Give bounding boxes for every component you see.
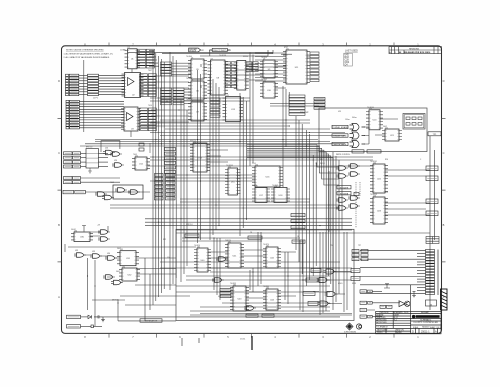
U3 buffer triangle bbox=[127, 113, 134, 121]
U2 output labels bbox=[140, 74, 157, 97]
right rail wire A bbox=[429, 136, 431, 310]
label RDDATA bbox=[337, 192, 351, 196]
gate G11 bbox=[98, 237, 110, 242]
right rail wire B bbox=[434, 150, 436, 240]
IC U13 bbox=[223, 95, 244, 122]
svg-text:ERASE GATE: ERASE GATE bbox=[333, 135, 347, 138]
IC U15 bbox=[225, 166, 241, 195]
elbow fan bus bbox=[247, 145, 339, 293]
U1 label stubs bbox=[149, 51, 159, 66]
bus label L3 bbox=[155, 185, 164, 188]
svg-text:74S124: 74S124 bbox=[225, 240, 231, 242]
gate G6a bbox=[115, 188, 127, 193]
output row 289.8b bbox=[368, 290, 373, 293]
label box mid0 bbox=[64, 177, 73, 180]
bus label L1 bbox=[155, 177, 164, 180]
bus label 4 bbox=[165, 166, 176, 169]
wire drop bbox=[117, 300, 119, 321]
capacitor C26 + ground bbox=[94, 315, 105, 321]
svg-text:9602: 9602 bbox=[117, 248, 121, 250]
filter block inner bbox=[404, 115, 424, 128]
gate G14 bbox=[105, 256, 117, 261]
scattered reference labels bbox=[71, 47, 422, 298]
bus label R2 bbox=[166, 181, 176, 184]
svg-text:2. ALL CAPACITOR VALUES ARE IN: 2. ALL CAPACITOR VALUES ARE IN MICROFARA… bbox=[64, 56, 111, 59]
svg-text:9-1: 9-1 bbox=[394, 319, 397, 321]
border frame bbox=[62, 46, 442, 334]
svg-text:1. ALL RESISTOR VALUES ARE IN: 1. ALL RESISTOR VALUES ARE IN OHMS, 1/4 … bbox=[64, 53, 114, 56]
wbox label 1 bbox=[314, 101, 325, 103]
wire bbox=[210, 50, 231, 56]
UL diamond symbol bbox=[346, 323, 353, 330]
svg-text:B: B bbox=[443, 223, 445, 227]
svg-text:RELEASED PER ECN 25816: RELEASED PER ECN 25816 bbox=[404, 51, 431, 54]
svg-text:SA4400: SA4400 bbox=[395, 331, 402, 334]
svg-text:RDGATE: RDGATE bbox=[340, 186, 349, 189]
bus label R0 bbox=[166, 174, 176, 177]
jumper box r0a bbox=[352, 250, 359, 253]
svg-text:7407: 7407 bbox=[148, 70, 152, 72]
svg-text:74LS393: 74LS393 bbox=[226, 165, 233, 167]
bus label R4 bbox=[166, 189, 176, 192]
svg-text:D: D bbox=[58, 79, 60, 83]
label SEPARATOR bbox=[140, 319, 162, 323]
label box bus 213.5 bbox=[291, 214, 305, 217]
svg-text:WCLK: WCLK bbox=[320, 163, 326, 165]
svg-text:9602: 9602 bbox=[110, 182, 114, 184]
OR gate G3 bbox=[350, 141, 366, 148]
label flag SHUGART MODULE bbox=[189, 48, 201, 52]
IC U6 bbox=[188, 79, 207, 100]
connector J4 box bbox=[426, 300, 437, 306]
gate at 218,280 bbox=[212, 278, 224, 283]
IC U32 one-shot bbox=[119, 266, 140, 281]
label box wc2 bbox=[367, 150, 381, 153]
svg-text:300ns: 300ns bbox=[352, 117, 357, 119]
gate G13 bbox=[90, 254, 102, 259]
gate at 250,308 bbox=[244, 306, 256, 311]
svg-text:U33: U33 bbox=[75, 250, 78, 252]
U43 label 1 bbox=[220, 292, 231, 295]
svg-text:A: A bbox=[58, 295, 60, 299]
IC U41 bbox=[225, 241, 244, 268]
IC U22 counter bbox=[370, 162, 388, 193]
svg-text:B: B bbox=[58, 223, 60, 227]
svg-text:J1 P1: J1 P1 bbox=[93, 98, 98, 100]
fold marks bbox=[182, 338, 199, 346]
jumper box y166 bbox=[426, 166, 438, 171]
svg-text:SHEET 2 OF 2: SHEET 2 OF 2 bbox=[430, 327, 441, 329]
vertical bus bundle left bbox=[153, 50, 187, 305]
svg-text:74LS00: 74LS00 bbox=[263, 286, 269, 288]
power filter label 0 bbox=[67, 315, 81, 318]
label box idx2b bbox=[73, 161, 81, 164]
svg-text:NOTES: UNLESS OTHERWISE SPECIF: NOTES: UNLESS OTHERWISE SPECIFIED bbox=[66, 50, 104, 52]
U3 output labels bbox=[140, 108, 157, 131]
label box sep1 bbox=[185, 234, 199, 237]
svg-text:2114: 2114 bbox=[252, 163, 256, 165]
CSA symbol bbox=[356, 324, 361, 329]
svg-text:CRTCLK: CRTCLK bbox=[186, 224, 194, 226]
svg-text:8X330: 8X330 bbox=[243, 56, 248, 58]
svg-text:74LS74: 74LS74 bbox=[186, 78, 192, 80]
IC U20 shift reg bbox=[366, 108, 383, 130]
test point TP3 bbox=[387, 305, 393, 308]
svg-text:U1: U1 bbox=[128, 47, 130, 49]
gate G5a bbox=[103, 150, 115, 155]
svg-text:U19: U19 bbox=[338, 111, 341, 113]
label box SPINDLE bbox=[306, 278, 318, 282]
label box sep4 bbox=[246, 314, 258, 317]
svg-text:FD1771: FD1771 bbox=[190, 140, 196, 142]
gate at 354,206 bbox=[348, 204, 360, 209]
diode CR2 bbox=[88, 315, 91, 318]
label box low0 bbox=[63, 190, 74, 194]
jumper box y176 bbox=[426, 176, 438, 181]
svg-text:74LS164: 74LS164 bbox=[367, 107, 374, 109]
svg-text:7438: 7438 bbox=[186, 99, 190, 101]
top bus corner into U11 bbox=[268, 50, 273, 56]
resistor R13 bbox=[139, 148, 144, 151]
gate G5b bbox=[110, 152, 122, 157]
gate at 342,208 bbox=[336, 206, 348, 211]
gate at 354,198 bbox=[348, 196, 360, 201]
bus label L5 bbox=[155, 193, 164, 196]
U11 output labels bbox=[310, 52, 319, 82]
gate at 354,174 bbox=[348, 172, 360, 177]
svg-text:74LS138: 74LS138 bbox=[219, 55, 226, 57]
misc interconnect wires bbox=[131, 57, 430, 298]
label box sep5 bbox=[262, 314, 274, 317]
output row 308.4 bbox=[360, 308, 367, 311]
IC U9 bbox=[260, 58, 278, 78]
svg-text:REVISIONS: REVISIONS bbox=[409, 48, 420, 50]
transistor Q2 bbox=[405, 301, 410, 306]
IC U1 hex buffer bbox=[125, 47, 141, 69]
IC U23 counter bbox=[370, 195, 388, 224]
IC U43 bbox=[230, 284, 249, 311]
IC U17 bbox=[252, 186, 270, 203]
label box g3 bbox=[303, 292, 315, 296]
IC U44 bbox=[263, 287, 281, 310]
notes text bbox=[64, 50, 114, 60]
label box mid0b bbox=[73, 177, 81, 180]
svg-text:NEXT ASSY: NEXT ASSY bbox=[377, 328, 388, 331]
svg-text:TOLERANCE: TOLERANCE bbox=[376, 326, 388, 329]
gate G16 bbox=[111, 280, 123, 285]
svg-text:D: D bbox=[412, 329, 414, 333]
svg-text:USED ON: USED ON bbox=[395, 329, 404, 331]
svg-text:74LS10: 74LS10 bbox=[261, 57, 267, 59]
jumper box m1 bbox=[351, 269, 360, 273]
gate G5c bbox=[112, 163, 124, 168]
svg-text:74LS14: 74LS14 bbox=[194, 245, 200, 247]
wbox label 2 bbox=[314, 104, 325, 106]
gate at 354,166 bbox=[348, 164, 360, 169]
jumper box r1b bbox=[361, 254, 368, 257]
output wires bbox=[367, 291, 400, 316]
svg-text:C: C bbox=[443, 151, 445, 155]
svg-text:FLOPPY CONTROLLER: FLOPPY CONTROLLER bbox=[414, 322, 439, 324]
wire bbox=[88, 325, 102, 327]
wire to separator box bbox=[118, 320, 176, 322]
gate G6d bbox=[102, 195, 114, 200]
svg-text:25011: 25011 bbox=[240, 339, 246, 341]
bus label R1 bbox=[166, 177, 176, 180]
svg-text:U26: U26 bbox=[114, 160, 117, 162]
separator internal wires bbox=[182, 232, 352, 315]
label box idx2 bbox=[64, 161, 73, 164]
svg-text:9602: 9602 bbox=[383, 126, 387, 128]
vertical bus bundle centre bbox=[198, 53, 343, 311]
label WRITE GATE bbox=[332, 142, 348, 146]
label box mid1 bbox=[64, 181, 73, 184]
U43 label 2 bbox=[220, 295, 231, 298]
gate G6b bbox=[128, 190, 140, 195]
svg-text:U13: U13 bbox=[226, 95, 229, 97]
IC U11 port bbox=[283, 48, 310, 84]
feedback wire bbox=[101, 141, 120, 152]
jumper box r0b bbox=[361, 250, 368, 253]
svg-text:74LS93: 74LS93 bbox=[230, 283, 236, 285]
IC U12 bbox=[132, 155, 150, 170]
svg-text:TUNNEL ERASE: TUNNEL ERASE bbox=[332, 126, 348, 129]
label RDGATE bbox=[337, 186, 351, 190]
bus label 5 bbox=[165, 171, 176, 174]
svg-text:U33: U33 bbox=[92, 251, 95, 253]
zone numerals bbox=[58, 42, 445, 338]
U11 lower pin labels bbox=[289, 95, 305, 115]
U8 pin label column bbox=[226, 62, 237, 88]
write control enclosure box bbox=[319, 108, 427, 152]
svg-text:WRITE CONTROL: WRITE CONTROL bbox=[336, 154, 350, 156]
gate at 331,294 bbox=[325, 292, 338, 297]
label box wc1 bbox=[352, 150, 364, 153]
connector J1 pins group 2 bbox=[66, 100, 124, 129]
IC U21 bbox=[382, 127, 402, 141]
gate G12 bbox=[74, 253, 86, 258]
svg-text:74LS393: 74LS393 bbox=[370, 194, 377, 196]
bus label R6 bbox=[166, 197, 176, 200]
label box idx1 bbox=[64, 156, 73, 159]
label box MOTOR bbox=[308, 302, 318, 306]
label box idx0b bbox=[73, 152, 81, 155]
svg-text:25010: 25010 bbox=[377, 332, 382, 334]
connector J1 pins group 1 bbox=[66, 74, 125, 95]
svg-text:D: D bbox=[443, 79, 445, 83]
svg-text:CONN: CONN bbox=[120, 50, 126, 52]
svg-text:74S74: 74S74 bbox=[252, 185, 257, 187]
svg-text:9602: 9602 bbox=[116, 271, 120, 273]
label box low1 bbox=[75, 190, 86, 194]
label box bus 219.5 bbox=[291, 220, 305, 223]
label box bus 225.5 bbox=[291, 226, 305, 229]
svg-text:U8: U8 bbox=[211, 58, 213, 60]
IC U8 decoder bbox=[208, 58, 229, 95]
IC U3 line receiver bbox=[121, 107, 141, 131]
IC U7 bbox=[188, 100, 207, 121]
wbox label 3 bbox=[314, 107, 325, 109]
svg-text:HDLD: HDLD bbox=[338, 283, 343, 285]
wbox label 0 bbox=[314, 98, 325, 100]
IC U8B bbox=[234, 61, 249, 91]
output row 289.8 bbox=[360, 290, 367, 293]
wire vertical J1 area bbox=[83, 60, 85, 132]
revision block bbox=[389, 47, 442, 54]
gate at 342,168 bbox=[336, 166, 348, 171]
zone ticks bbox=[58, 43, 446, 338]
svg-text:PRECOMP: PRECOMP bbox=[300, 112, 309, 114]
svg-text:74LS04: 74LS04 bbox=[186, 56, 192, 58]
label box mid1b bbox=[73, 181, 81, 184]
label rows right of U8B bbox=[246, 62, 258, 72]
test point TP2 bbox=[380, 305, 386, 308]
bus label R5 bbox=[166, 193, 176, 196]
label rows left of U13 bbox=[210, 98, 220, 117]
gate at 323,280 bbox=[317, 278, 330, 283]
card edge tab bbox=[441, 289, 448, 310]
svg-text:TP7: TP7 bbox=[358, 245, 361, 247]
motor wiring bbox=[302, 272, 351, 304]
label TUNNEL ERASE bbox=[332, 125, 349, 129]
IC U2 line receiver bbox=[122, 73, 144, 98]
bus label 2 bbox=[165, 157, 176, 160]
svg-text:UL RECOGNIZED: UL RECOGNIZED bbox=[344, 332, 357, 334]
last-used box bbox=[344, 53, 353, 66]
IC U5 bbox=[188, 57, 207, 79]
label box idx0 bbox=[64, 152, 73, 155]
svg-text:74LS02: 74LS02 bbox=[261, 79, 267, 81]
svg-text:R25: R25 bbox=[385, 192, 388, 194]
IC U42 bbox=[263, 245, 281, 268]
svg-text:LAST USED: LAST USED bbox=[345, 49, 358, 52]
U1 output labels bbox=[138, 49, 155, 68]
gate G6c bbox=[95, 192, 107, 197]
gate at 330,271.5 bbox=[324, 269, 337, 274]
gate at 324,303.5 bbox=[318, 301, 331, 306]
label ERASE GATE bbox=[332, 134, 348, 138]
svg-text:U32: U32 bbox=[122, 266, 125, 268]
IC U14 FDC bbox=[190, 141, 210, 172]
jumper box y199 bbox=[426, 199, 438, 204]
test point TP1 bbox=[428, 132, 441, 136]
svg-text:7414: 7414 bbox=[148, 105, 152, 107]
svg-text:74LS161: 74LS161 bbox=[370, 161, 377, 163]
OR gate G2 bbox=[350, 132, 366, 139]
svg-text:1F: 1F bbox=[297, 236, 299, 238]
label box idx1b bbox=[73, 156, 81, 159]
jumper box r1a bbox=[352, 254, 359, 257]
gate at 342,176 bbox=[336, 174, 348, 179]
horizontal bus wires bbox=[80, 52, 430, 313]
gate at 342,200 bbox=[336, 198, 348, 203]
last used list bbox=[345, 49, 359, 66]
IC U31 one-shot bbox=[117, 249, 139, 266]
gate G15 bbox=[103, 275, 115, 280]
svg-text:2F: 2F bbox=[250, 232, 252, 234]
data separator enclosure bbox=[176, 229, 354, 320]
svg-text:TP6: TP6 bbox=[330, 245, 333, 247]
bus label 3 bbox=[165, 161, 176, 164]
svg-text:RP3 150: RP3 150 bbox=[86, 147, 92, 149]
wire to title area bbox=[409, 285, 411, 311]
label box g1 bbox=[311, 269, 321, 273]
filter block parts bbox=[406, 117, 410, 120]
svg-text:7405: 7405 bbox=[133, 154, 137, 156]
resistor R12 bbox=[139, 143, 144, 146]
svg-text:8T97: 8T97 bbox=[284, 47, 288, 49]
svg-text:SA 4400: SA 4400 bbox=[422, 325, 429, 328]
resistor R20 bbox=[354, 192, 359, 195]
svg-text:74LS74: 74LS74 bbox=[263, 244, 269, 246]
label box sep2 bbox=[248, 236, 262, 239]
label box sep3 bbox=[292, 240, 305, 243]
bus label L4 bbox=[155, 189, 164, 192]
capacitor C27 bbox=[91, 325, 94, 328]
svg-text:150ns: 150ns bbox=[345, 119, 350, 121]
svg-text:R24: R24 bbox=[385, 159, 388, 161]
pullup R30 and cap C9 bbox=[384, 284, 416, 297]
title block logo bbox=[412, 315, 415, 318]
svg-text:W2: W2 bbox=[201, 50, 204, 52]
title block bbox=[376, 311, 441, 333]
bus label L2 bbox=[155, 181, 164, 184]
IC U18 bbox=[271, 186, 290, 203]
label box idx3 bbox=[64, 165, 73, 168]
output row 301.2 bbox=[360, 301, 367, 304]
OR gate G1 bbox=[350, 124, 366, 131]
driver triangle Q1 bbox=[399, 301, 405, 307]
U2 buffer triangle bbox=[128, 78, 135, 86]
svg-text:C: C bbox=[58, 151, 60, 155]
ground under RP3 bbox=[88, 168, 92, 173]
PLL to separator wires bbox=[125, 258, 176, 321]
U11 left wires bbox=[255, 53, 286, 81]
fold mark center bbox=[251, 336, 253, 350]
svg-text:U44: U44 bbox=[218, 296, 221, 298]
bus label L0 bbox=[155, 174, 164, 177]
bus label 0 bbox=[165, 148, 176, 151]
jumper box m2 bbox=[351, 277, 360, 281]
output row 315b bbox=[368, 315, 373, 318]
svg-text:R22: R22 bbox=[163, 239, 166, 241]
title block text bbox=[376, 311, 441, 334]
svg-text:U26: U26 bbox=[105, 148, 108, 150]
wire +5V rail bbox=[103, 316, 340, 318]
svg-text:APPROVED: APPROVED bbox=[376, 321, 387, 324]
svg-text:SCHEMATIC: SCHEMATIC bbox=[420, 318, 432, 321]
svg-text:RDDATA: RDDATA bbox=[340, 192, 349, 195]
output row 301.2b bbox=[368, 302, 373, 305]
svg-text:C14: C14 bbox=[167, 257, 170, 259]
net label rows x160 upper bbox=[161, 62, 192, 105]
cap dashed bbox=[149, 143, 151, 153]
output row 315 bbox=[360, 315, 367, 318]
U43 label 0 bbox=[220, 289, 231, 292]
svg-text:74LS08: 74LS08 bbox=[272, 185, 278, 187]
label box idx3b bbox=[73, 165, 81, 168]
IC U16 RAM bbox=[252, 164, 283, 187]
jumper box y211 bbox=[426, 211, 438, 216]
gate G10 bbox=[98, 230, 110, 235]
svg-text:25011-1: 25011-1 bbox=[421, 330, 430, 333]
power filter label 1 bbox=[67, 325, 81, 328]
gate at 222,259 bbox=[216, 257, 228, 262]
bus label R3 bbox=[166, 185, 176, 188]
bus label L6 bbox=[155, 197, 164, 200]
label PRODUCT TEST W1 bbox=[209, 48, 232, 51]
IC U30 one-shot bbox=[71, 230, 93, 241]
